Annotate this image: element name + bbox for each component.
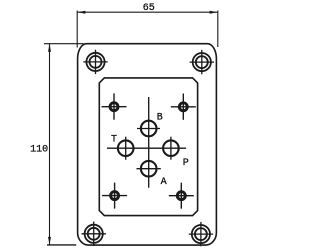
dimension 110 line (44, 44, 84, 245)
small bolt hole top-left (102, 93, 127, 119)
small bolt hole bottom-left (102, 183, 127, 209)
port T (118, 137, 134, 160)
svg-text:65: 65 (143, 3, 155, 14)
svg-text:A: A (161, 177, 167, 188)
mounting hole TR (190, 50, 214, 74)
svg-text:T: T (111, 135, 117, 146)
port B (137, 121, 160, 137)
svg-text:P: P (183, 158, 189, 169)
dimension 110 top arrowhead (48, 44, 51, 52)
port A (137, 161, 161, 177)
mounting hole BL (82, 222, 106, 246)
dimension 110 bottom extension line (47, 244, 76, 246)
mounting hole TL (83, 50, 107, 74)
small bolt hole bottom-right (169, 183, 194, 209)
port centerline vertical (through B and A) (148, 97, 150, 188)
dimension 65 right arrowhead (210, 11, 218, 14)
dimension 110 top extension line (44, 43, 84, 45)
dimension 65 left arrowhead (77, 11, 85, 14)
mounting hole BR (189, 222, 213, 246)
outer plate outline (78, 44, 217, 245)
svg-text:B: B (157, 112, 163, 123)
inner valve interface rectangle (chamfered) (99, 78, 197, 216)
dimension 65 right extension line (217, 11, 219, 48)
dimension 65 left extension line (76, 11, 78, 48)
svg-text:110: 110 (30, 144, 48, 155)
port P (163, 137, 179, 160)
dimension 110 bottom arrowhead (48, 237, 51, 245)
small bolt hole top-right (171, 94, 196, 120)
dimension 65 line (77, 11, 218, 48)
port centerline horizontal (through T and P) (107, 147, 186, 149)
